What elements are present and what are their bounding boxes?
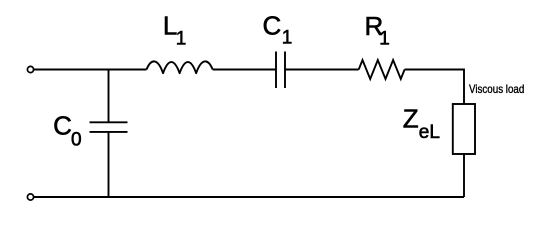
svg-text:eL: eL (419, 122, 440, 143)
impedance ZeL viscous load box (453, 104, 475, 154)
label C0 (53, 111, 81, 151)
wire inductor to C1 (213, 69, 276, 71)
capacitor C1 (276, 52, 285, 89)
svg-text:1: 1 (379, 28, 390, 49)
wire top from terminal to inductor (34, 69, 147, 71)
wire load to bottom rail (463, 154, 465, 197)
label C1 (263, 11, 293, 49)
svg-text:C: C (263, 11, 282, 41)
svg-text:1: 1 (176, 28, 187, 49)
svg-text:1: 1 (282, 28, 293, 49)
wire from C0 to bottom rail (108, 132, 110, 197)
terminal top-left (27, 66, 33, 72)
resistor R1 (359, 60, 405, 79)
wire R1 to load (corner down) (405, 70, 464, 105)
svg-text:Z: Z (403, 103, 419, 133)
wire C1 to R1 (285, 69, 359, 71)
label ZeL (403, 103, 440, 142)
capacitor C0 (90, 122, 128, 132)
svg-text:0: 0 (71, 129, 82, 150)
label R1 (365, 11, 390, 50)
wire bottom rail (34, 196, 464, 198)
svg-text:Viscous load: Viscous load (469, 83, 524, 96)
label L1 (163, 11, 186, 50)
terminal bottom-left (27, 194, 33, 200)
inductor L1 (147, 61, 213, 73)
node A junction to C0 (108, 70, 110, 123)
svg-text:C: C (53, 111, 72, 141)
